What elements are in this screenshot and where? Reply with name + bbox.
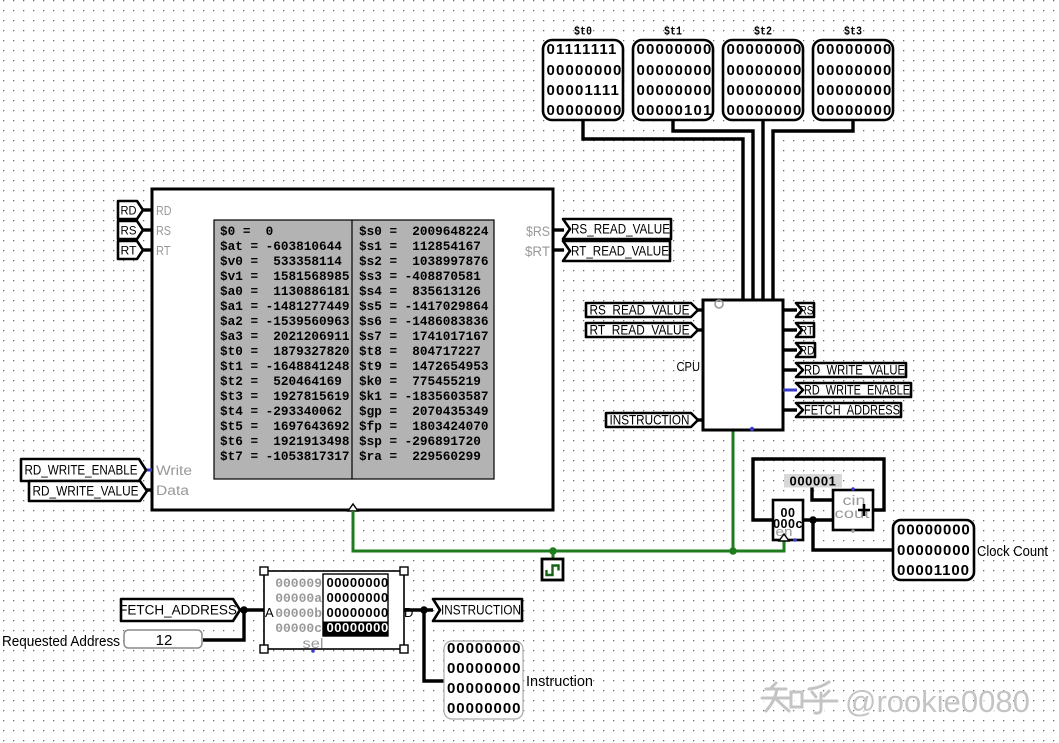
junction instruction [420,606,428,614]
svg-text:00000000: 00000000 [817,102,893,119]
svg-text:$t0: $t0 [574,25,592,39]
svg-text:Instruction: Instruction [526,673,593,690]
wire from $t0 display to CPU pin 1 [583,118,743,301]
svg-text:00000000: 00000000 [637,82,713,99]
svg-text:$RS: $RS [526,224,550,239]
CPU bottom floating pin (blue) [750,427,754,431]
svg-text:RT: RT [121,244,138,258]
svg-text:$a3 = 2021206911: $a3 = 2021206911 [220,329,350,344]
svg-text:00000000: 00000000 [637,62,713,79]
wire from $t1 display to CPU pin 2 [673,118,753,301]
tunnel RS [118,221,143,239]
tunnel RD_WRITE_VALUE [29,481,147,501]
tunnel RD [118,201,143,219]
svg-text:$s3 = -408870581: $s3 = -408870581 [359,269,481,284]
counter register floating pin [793,538,797,542]
svg-text:Data: Data [156,483,190,498]
svg-text:$s6 = -1486083836: $s6 = -1486083836 [359,314,488,329]
green junction at clock [549,547,557,555]
svg-text:00000101: 00000101 [637,102,713,119]
svg-text:RD_WRITE_VALUE: RD_WRITE_VALUE [33,484,139,499]
svg-text:00000000: 00000000 [637,41,713,58]
svg-text:RT_READ_VALUE: RT_READ_VALUE [571,244,669,259]
port label RT [156,243,171,258]
tunnel RT out [796,323,814,338]
tunnel RD_WRITE_ENABLE out [796,383,911,398]
constant 000001 [784,474,842,489]
svg-text:00000000: 00000000 [727,82,803,99]
svg-text:$at = -603810644: $at = -603810644 [220,239,342,254]
instruction display [444,640,523,719]
svg-text:00000000: 00000000 [447,660,521,677]
port label $RS [526,224,550,239]
wire RD_WRITE_VALUE stub [145,488,152,491]
svg-text:RD: RD [156,203,172,218]
wire CPU FETCH_ADDRESS stub [783,408,797,411]
wire CPU RT out stub [783,328,797,331]
svg-text:$t3 = 1927815619: $t3 = 1927815619 [220,389,349,404]
clock component [542,559,563,580]
svg-text:$0 = 0: $0 = 0 [220,224,273,239]
svg-text:01111111: 01111111 [547,41,618,58]
svg-text:$sp = -296891720: $sp = -296891720 [359,434,481,449]
ROM selection handle 1 [260,567,268,575]
ROM component [264,571,413,651]
wire CPU INSTRUCTION stub [696,418,703,421]
svg-text:RD_WRITE_VALUE: RD_WRITE_VALUE [804,363,905,378]
svg-text:FETCH_ADDRESS: FETCH_ADDRESS [119,603,237,618]
svg-text:00000000: 00000000 [727,102,803,119]
svg-text:$RT: $RT [525,244,550,259]
CPU box [703,300,783,430]
svg-text:00000000: 00000000 [547,102,623,119]
wire RD stub [143,208,152,211]
svg-text:$k0 = 775455219: $k0 = 775455219 [359,374,481,389]
svg-text:CPU: CPU [677,359,701,374]
ROM selection handle 3 [260,645,268,653]
svg-text:$fp = 1803424070: $fp = 1803424070 [359,419,488,434]
svg-text:$t7 = -1053817317: $t7 = -1053817317 [220,449,349,464]
wire CPU RD_WRITE_ENABLE stub (blue) [783,389,797,392]
svg-text:00000000: 00000000 [447,680,521,697]
svg-text:00001100: 00001100 [897,562,970,579]
counter register clock triangle [779,534,789,541]
svg-text:00000000: 00000000 [897,522,971,539]
adder cout floating pin [851,529,855,533]
CPU label [677,359,701,374]
tunnel RS out [796,303,814,318]
svg-text:$t6 = 1921913498: $t6 = 1921913498 [220,434,349,449]
register display $t3 [813,25,893,121]
wire RS stub [143,228,152,231]
wire RD_WRITE_ENABLE stub (blue) [145,469,152,472]
port label RS [156,223,171,238]
svg-text:000001: 000001 [790,474,837,489]
svg-text:$t1 = -1648841248: $t1 = -1648841248 [220,359,349,374]
label Clock Count [977,544,1048,560]
svg-text:00000000: 00000000 [447,700,521,717]
counter register [773,500,803,540]
svg-text:$s7 = 1741017167: $s7 = 1741017167 [359,329,488,344]
svg-text:12: 12 [156,632,173,649]
tunnel FETCH_ADDRESS out [796,403,901,418]
svg-text:RD_WRITE_ENABLE: RD_WRITE_ENABLE [25,463,138,478]
tunnel RT_READ_VALUE to CPU [586,323,698,338]
ROM sel floating pin [311,649,315,653]
svg-text:$t2 = 520464169: $t2 = 520464169 [220,374,342,389]
svg-text:$v1 = 1581568985: $v1 = 1581568985 [220,269,349,284]
svg-text:00000000: 00000000 [547,62,623,79]
svg-text:RD: RD [121,204,137,218]
wire RT_READ_VALUE stub [553,248,564,251]
port label Write [156,463,192,478]
junction fetch address [240,606,248,614]
tunnel RS_READ_VALUE to CPU [586,303,698,318]
adder cin floating pin [851,487,855,491]
wire CPU RD_WRITE_VALUE stub [783,368,797,371]
wire RS_READ_VALUE stub [553,228,564,231]
tunnel RT [118,241,143,259]
svg-text:00000000: 00000000 [727,62,803,79]
svg-text:RS: RS [121,224,137,238]
svg-text:RD: RD [800,344,815,358]
svg-text:$ra = 229560299: $ra = 229560299 [359,449,481,464]
wire FETCH_ADDRESS to ROM [239,608,264,611]
svg-text:$t9 = 1472654953: $t9 = 1472654953 [359,359,488,374]
svg-text:D: D [404,605,413,620]
svg-text:$t3: $t3 [844,25,862,39]
svg-text:00000a: 00000a [275,591,322,606]
svg-text:$t0 = 1879327820: $t0 = 1879327820 [220,344,349,359]
svg-text:Write: Write [156,463,192,478]
wire to instruction display [424,610,444,681]
svg-text:$k1 = -1835603587: $k1 = -1835603587 [359,389,488,404]
svg-text:$t8 = 804717227: $t8 = 804717227 [359,344,481,359]
port label $RT [525,244,550,259]
svg-text:$t1: $t1 [664,25,682,39]
svg-text:FETCH_ADDRESS: FETCH_ADDRESS [804,403,900,418]
junction register output [809,516,817,524]
wire CPU RD out stub [783,348,797,351]
svg-text:00000b: 00000b [275,606,322,621]
svg-text:00000000: 00000000 [817,82,893,99]
wire ROM D output [404,608,433,611]
svg-text:00000000: 00000000 [897,542,971,559]
svg-text:$t2: $t2 [754,25,772,39]
svg-text:$gp = 2070435349: $gp = 2070435349 [359,404,488,419]
svg-text:$s5 = -1417029864: $s5 = -1417029864 [359,299,489,314]
svg-text:00000000: 00000000 [817,62,893,79]
svg-text:sel: sel [303,636,324,651]
svg-text:$s1 = 112854167: $s1 = 112854167 [359,239,481,254]
svg-text:$s4 = 835613126: $s4 = 835613126 [359,284,481,299]
feedback wire adder to register [753,459,884,520]
svg-text:00000000: 00000000 [447,640,521,657]
wire CPU RS out stub [783,308,797,311]
wire to requested address input [203,610,244,640]
svg-text:$v0 = 533358114: $v0 = 533358114 [220,254,342,269]
svg-text:RS_READ_VALUE: RS_READ_VALUE [571,222,670,237]
svg-text:@rookie0080: @rookie0080 [845,684,1030,719]
clock count display [893,520,974,580]
register file box [152,189,553,510]
svg-text:$a0 = 1130886181: $a0 = 1130886181 [220,284,350,299]
svg-text:$a2 = -1539560963: $a2 = -1539560963 [220,314,349,329]
svg-text:RS: RS [156,223,171,238]
tunnel RD_WRITE_ENABLE [21,459,146,481]
svg-text:Clock Count: Clock Count [977,544,1048,560]
tunnel RT_READ_VALUE (out) [563,241,670,261]
svg-text:00000000: 00000000 [327,575,389,590]
ROM selection handle 2 [400,567,408,575]
ROM selection handle 4 [400,645,408,653]
tunnel RD out [796,343,815,358]
register display $t2 [723,25,803,121]
svg-text:Requested Address: Requested Address [2,633,120,650]
wire register output to adder [803,518,833,521]
svg-text:00001111: 00001111 [547,82,621,99]
register file clock input triangle [348,504,358,511]
watermark zhihu @rookie0080 [762,682,1031,721]
tunnel RD_WRITE_VALUE out [796,363,906,378]
svg-text:00000000: 00000000 [327,590,389,605]
svg-text:RT: RT [800,324,815,338]
port label RD [156,203,172,218]
tunnel INSTRUCTION to CPU [606,413,698,428]
svg-text:00000000: 00000000 [817,41,893,58]
wire register output to clock count display [813,520,893,550]
svg-text:00000000: 00000000 [727,41,803,58]
tunnel FETCH_ADDRESS (bottom) [119,599,240,621]
register display $t0 [543,25,623,121]
svg-text:00000000: 00000000 [327,620,389,635]
svg-text:$s0 = 2009648224: $s0 = 2009648224 [359,224,489,239]
wire from $t2 display to CPU pin 3 [761,118,764,301]
wire from $t3 display to CPU pin 4 [773,118,853,301]
tunnel RS_READ_VALUE (out) [563,219,671,239]
svg-text:00000000: 00000000 [327,605,389,620]
register value table [214,220,494,479]
wire CPU RT_READ_VALUE stub [696,328,703,331]
tunnel INSTRUCTION (bottom) [433,599,522,621]
register display $t1 [633,25,713,121]
svg-text:RT_READ_VALUE: RT_READ_VALUE [590,323,690,338]
green junction at CPU branch [729,547,737,555]
svg-text:INSTRUCTION: INSTRUCTION [610,413,690,428]
svg-text:$t4 = -293340062: $t4 = -293340062 [220,404,342,419]
label Instruction [526,673,593,690]
wire constant to adder [812,487,833,500]
label Requested Address [2,633,120,650]
input Requested Address value box [124,630,202,649]
wire CPU RS_READ_VALUE stub [696,308,703,311]
svg-text:$s2 = 1038997876: $s2 = 1038997876 [359,254,488,269]
svg-text:RS_READ_VALUE: RS_READ_VALUE [590,303,690,318]
svg-text:INSTRUCTION: INSTRUCTION [441,603,521,618]
svg-text:$a1 = -1481277449: $a1 = -1481277449 [220,299,349,314]
green clock wire net [353,430,784,560]
svg-text:000009: 000009 [275,576,322,591]
wire RT stub [143,248,152,251]
svg-text:00000c: 00000c [275,621,322,636]
svg-text:$t5 = 1697643692: $t5 = 1697643692 [220,419,349,434]
svg-text:A: A [265,605,274,620]
adder [833,490,873,530]
svg-text:RS: RS [800,304,814,318]
svg-text:RT: RT [156,243,171,258]
port label Data [156,483,190,498]
svg-text:RD_WRITE_ENABLE: RD_WRITE_ENABLE [804,383,910,398]
